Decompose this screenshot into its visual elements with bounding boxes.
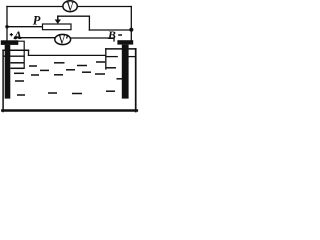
svg-text:B: B: [107, 28, 116, 42]
svg-text:A: A: [13, 28, 22, 42]
svg-text:V: V: [66, 0, 74, 14]
svg-text:P: P: [33, 13, 41, 27]
svg-text:V: V: [58, 31, 66, 47]
